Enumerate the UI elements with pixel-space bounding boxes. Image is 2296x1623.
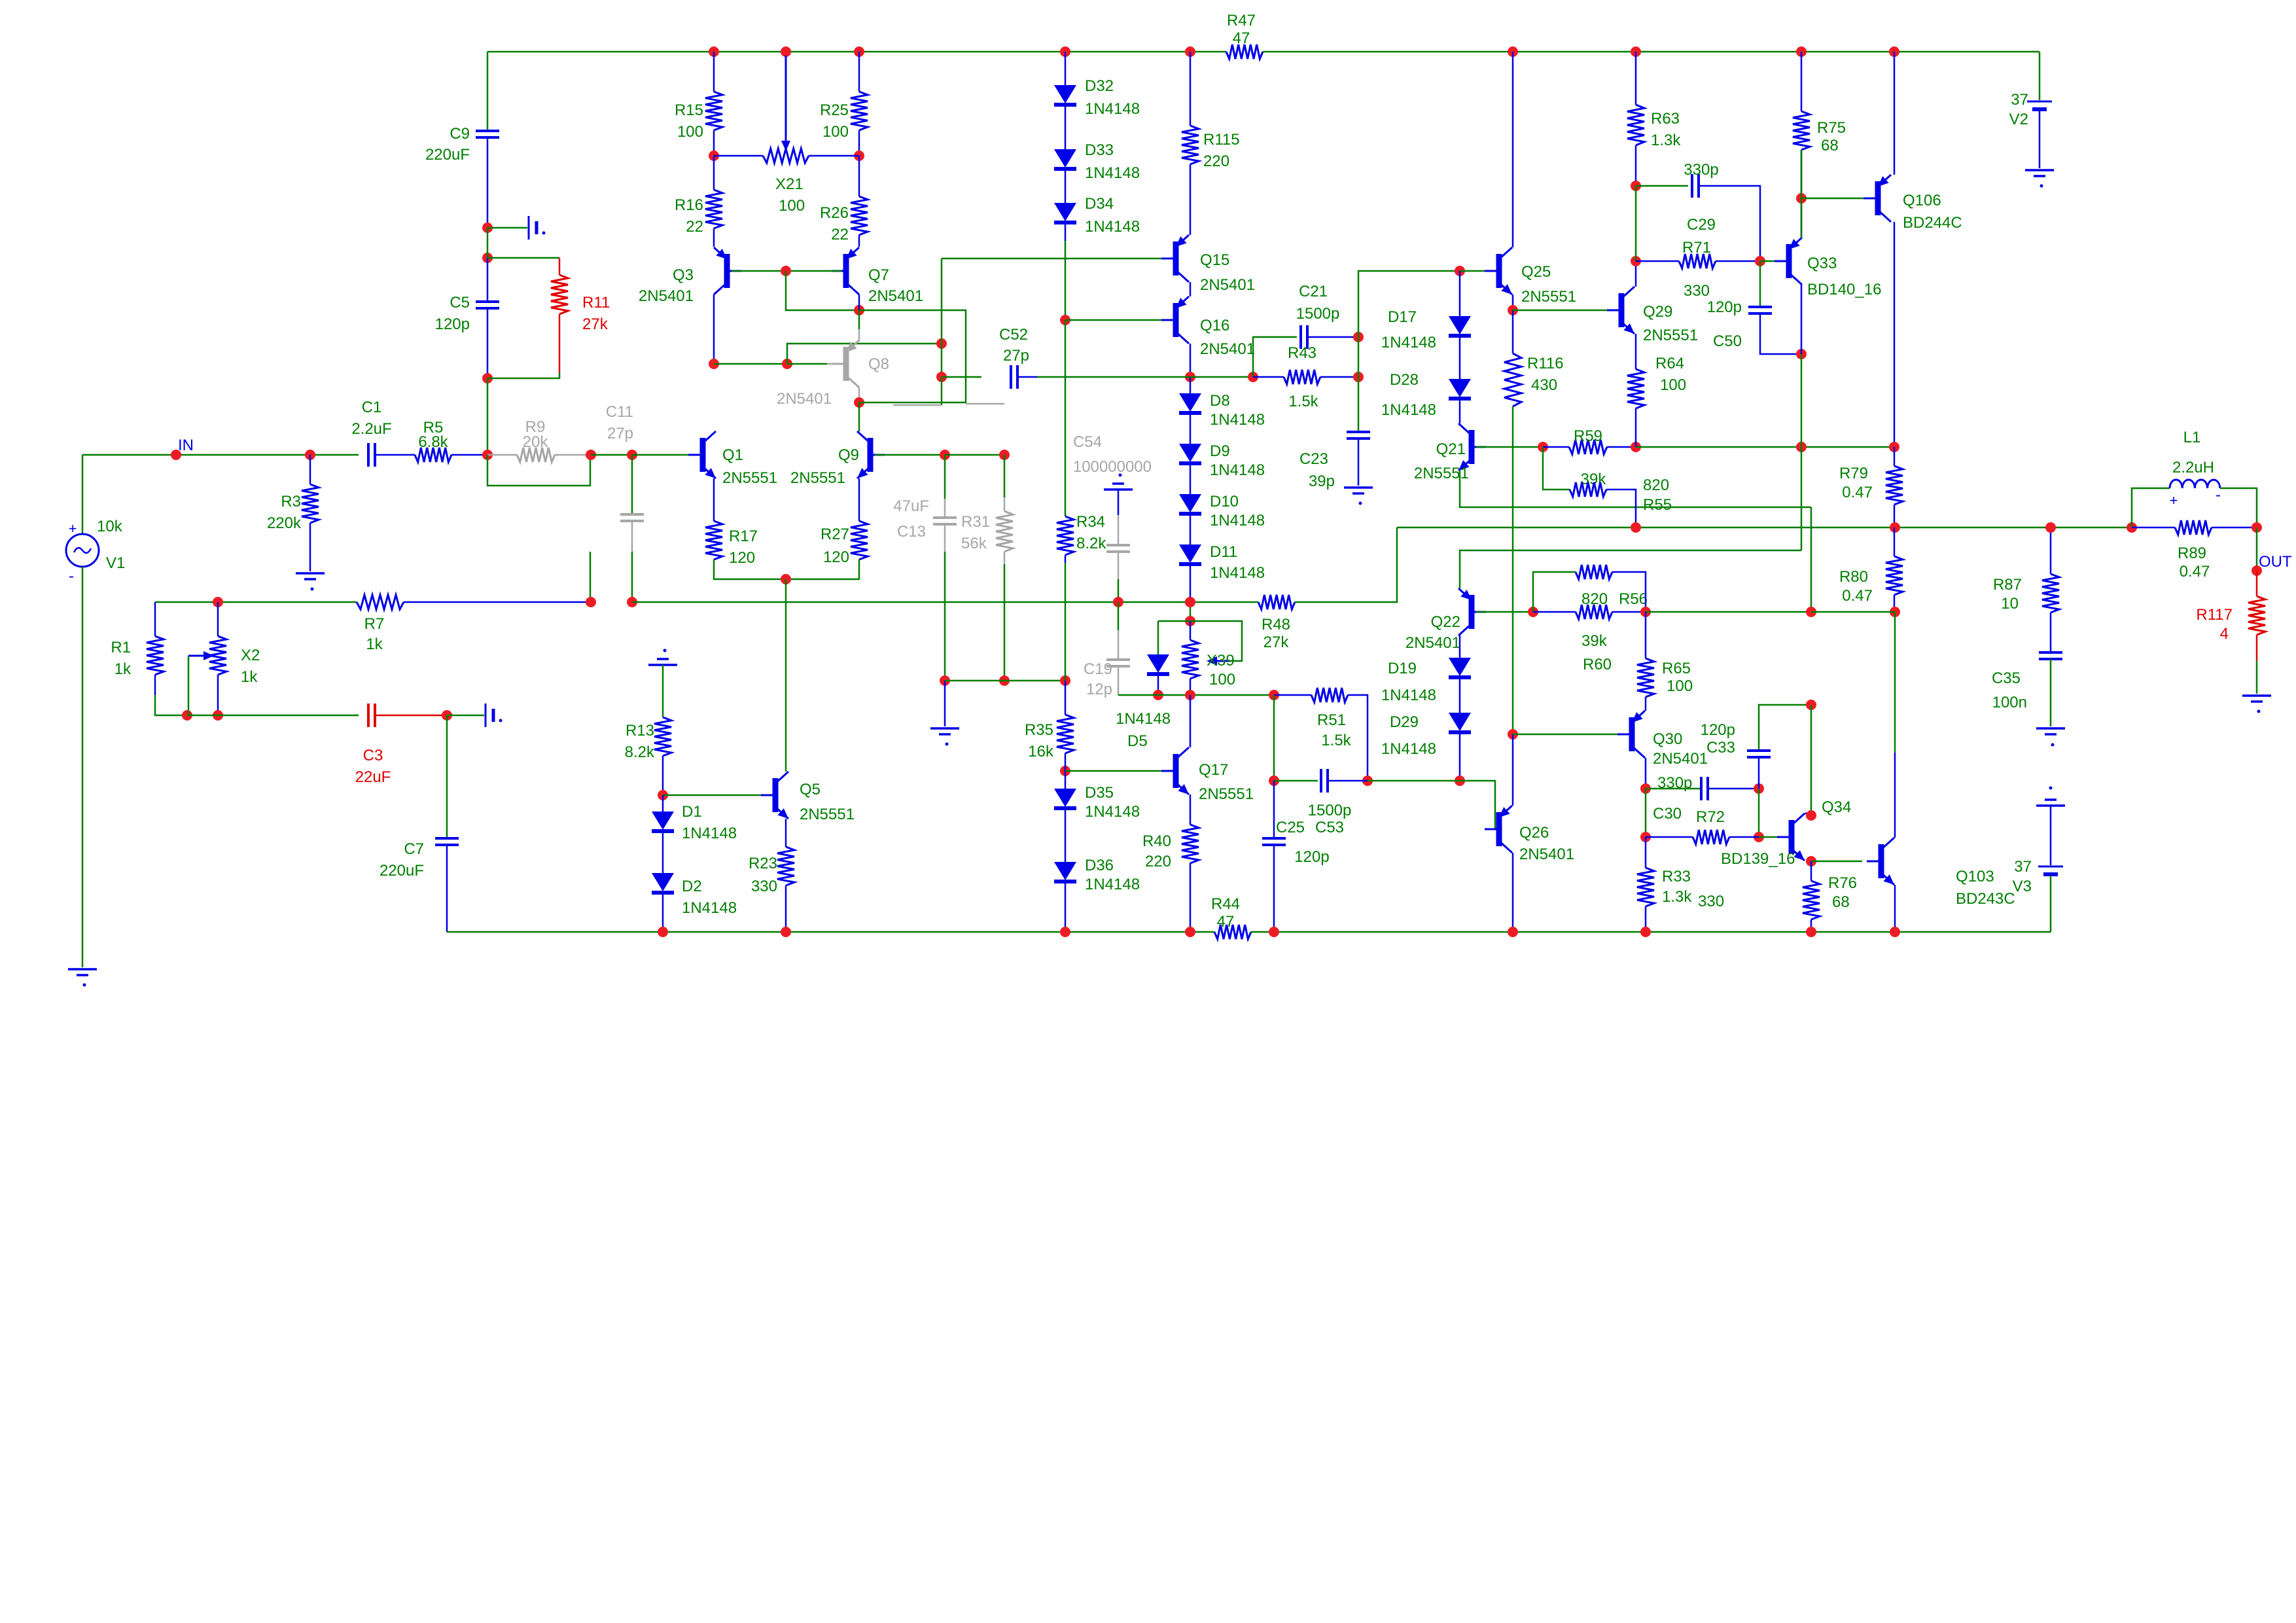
- svg-text:D17: D17: [1388, 308, 1417, 326]
- svg-text:10k: 10k: [97, 518, 123, 535]
- junction row B right: [1269, 690, 1279, 700]
- svg-text:D5: D5: [1127, 732, 1148, 750]
- junction R55/out rail: [1631, 522, 1641, 533]
- svg-text:27k: 27k: [1263, 633, 1290, 651]
- wire R1 bottom lead: [154, 675, 156, 695]
- wire bias row right: [1811, 611, 1895, 613]
- diode D8: [1179, 393, 1201, 413]
- transistor Q17: [1161, 747, 1189, 794]
- label C35 name: [1992, 669, 2021, 687]
- resistor R33: [1637, 868, 1654, 906]
- label Q9 value: [790, 469, 845, 487]
- svg-text:D33: D33: [1085, 141, 1114, 159]
- label D2 name: [682, 878, 702, 895]
- junction Q5 base node: [658, 790, 668, 800]
- svg-text:D28: D28: [1390, 371, 1419, 389]
- junction C33 top: [1806, 700, 1816, 710]
- wire row to Q26 base: [1460, 781, 1495, 829]
- junction R87 top: [2045, 522, 2056, 533]
- junction top rail 2: [854, 46, 864, 57]
- label R47 name: [1227, 12, 1256, 29]
- junction Q34 collector: [1806, 810, 1816, 821]
- label Q22 value: [1405, 634, 1460, 652]
- resistor R15: [705, 92, 722, 130]
- junction bottom rail 4: [1269, 927, 1279, 937]
- wire C13 bottom gray: [944, 524, 946, 552]
- label D1 value: [682, 825, 737, 842]
- label D19 value: [1381, 687, 1436, 704]
- label R80 value: [1842, 587, 1873, 605]
- wire C21 node to Q25 base: [1358, 271, 1460, 337]
- label R5 value: [418, 433, 448, 451]
- label Q15 name: [1200, 251, 1229, 269]
- label C13 name: [897, 523, 926, 541]
- ground R3: [296, 573, 325, 591]
- junction D11/mid rail: [1185, 597, 1195, 607]
- label C19 value: [1086, 681, 1112, 698]
- svg-text:C50: C50: [1713, 332, 1742, 350]
- junction R9 bypass right: [586, 450, 596, 460]
- wire bottom row to C3: [187, 715, 359, 717]
- diode D9: [1179, 444, 1201, 463]
- junction node C5 top: [482, 253, 493, 263]
- capacitor C53: [1262, 838, 1286, 845]
- capacitor C9: [476, 131, 499, 137]
- label C35 value: [1992, 694, 2027, 711]
- transistor Q5: [761, 772, 788, 819]
- label V1 value: [97, 518, 123, 535]
- wire R31 top green: [1004, 455, 1006, 497]
- svg-text:C5: C5: [450, 294, 470, 312]
- svg-text:R71: R71: [1682, 239, 1711, 257]
- wire R76 bottom lead: [1810, 919, 1812, 932]
- wire R26 bottom: [858, 235, 860, 247]
- svg-text:Q7: Q7: [868, 266, 889, 284]
- ground flag above R13: [648, 649, 677, 666]
- wire R72 right lead: [1729, 836, 1759, 838]
- resistor R40: [1182, 825, 1199, 863]
- wire C21 right lead: [1307, 336, 1358, 338]
- wire Q34 base row: [1759, 836, 1777, 838]
- svg-text:68: 68: [1821, 137, 1839, 154]
- wire C3 right lead: [375, 715, 447, 717]
- svg-text:Q8: Q8: [868, 355, 889, 373]
- wire R11 top branch: [487, 257, 559, 259]
- label Q16 value: [1200, 340, 1255, 358]
- svg-text:2N5401: 2N5401: [1519, 846, 1574, 863]
- svg-text:120p: 120p: [435, 315, 470, 333]
- wire Q15-Q16 link: [1190, 282, 1192, 296]
- ground V1: [68, 969, 97, 987]
- junction R71 left: [1631, 256, 1641, 266]
- svg-text:C9: C9: [450, 125, 470, 143]
- wire Q9 emitter: [858, 478, 860, 521]
- wire to R31 top: [945, 454, 1004, 456]
- svg-text:1N4148: 1N4148: [1381, 740, 1436, 758]
- label C25 value: [1308, 802, 1352, 819]
- label D10 name: [1210, 493, 1239, 510]
- wire C11 bottom lead: [631, 552, 633, 602]
- wire C54 column green: [1118, 579, 1120, 602]
- wire C35 bottom lead: [2050, 659, 2052, 726]
- label R9 value: [523, 433, 549, 451]
- label R9 name: [525, 418, 546, 436]
- label BD139 value: [1721, 850, 1795, 868]
- label Q5 name: [800, 781, 821, 798]
- svg-text:8.2k: 8.2k: [625, 743, 655, 761]
- wire V3 bottom lead: [2050, 876, 2052, 932]
- ground C23: [1344, 488, 1373, 505]
- svg-text:C52: C52: [999, 326, 1028, 344]
- svg-text:C30: C30: [1653, 805, 1682, 823]
- diode D11: [1179, 544, 1201, 564]
- wire C53 bottom lead: [1273, 845, 1275, 932]
- potentiometer X39 body: [1182, 640, 1199, 679]
- junction D8 top node: [1185, 372, 1195, 382]
- svg-text:2.2uF: 2.2uF: [351, 420, 391, 438]
- wire Q33 emitter up: [1801, 150, 1803, 238]
- label Q26 name: [1519, 824, 1549, 842]
- wire C52 to D8 node: [1037, 376, 1190, 378]
- ground flag V3 top: [2036, 787, 2065, 806]
- resistor R79: [1886, 466, 1903, 505]
- wire Q30 base row: [1513, 734, 1617, 736]
- label C23 name: [1299, 450, 1328, 468]
- label D33 value: [1085, 164, 1140, 182]
- svg-text:1.3k: 1.3k: [1651, 132, 1681, 149]
- potentiometer X21 body: [763, 149, 809, 163]
- svg-text:Q30: Q30: [1653, 730, 1682, 748]
- label R26 value: [831, 226, 849, 243]
- svg-text:Q29: Q29: [1643, 303, 1672, 321]
- label R3 name: [281, 493, 301, 510]
- svg-text:100: 100: [822, 123, 849, 141]
- transistor Q8 (disabled): [832, 340, 859, 387]
- label X39 value: [1209, 671, 1235, 688]
- label Q3 name: [673, 266, 694, 284]
- wire stub x902: [590, 552, 592, 602]
- label R64 name: [1655, 355, 1684, 372]
- wire V1 minus lead: [82, 567, 84, 967]
- svg-text:220k: 220k: [267, 514, 302, 532]
- label C52 value: [1003, 347, 1029, 365]
- wire D9-D10 link: [1190, 465, 1192, 494]
- wire D5 top lead: [1157, 621, 1159, 654]
- svg-text:1N4148: 1N4148: [682, 899, 737, 917]
- wire R7 row right: [404, 601, 590, 603]
- svg-text:1N4148: 1N4148: [1210, 564, 1265, 582]
- capacitor C21: [1301, 325, 1307, 349]
- svg-text:22: 22: [686, 218, 703, 236]
- svg-text:100000000: 100000000: [1073, 458, 1152, 476]
- svg-text:27p: 27p: [1003, 347, 1029, 365]
- svg-text:R25: R25: [820, 101, 849, 119]
- label D11 value: [1210, 564, 1265, 582]
- label R64 value: [1660, 376, 1686, 394]
- wire D1 top lead: [662, 795, 664, 811]
- resistor R11: [551, 275, 568, 314]
- wire C13 top green: [944, 455, 946, 499]
- label Q5 value: [800, 806, 855, 823]
- svg-text:R47: R47: [1227, 12, 1256, 29]
- resistor R63: [1627, 105, 1644, 145]
- svg-text:D32: D32: [1085, 77, 1114, 95]
- wire V2 top lead: [2039, 52, 2041, 100]
- label R87 name: [1993, 576, 2022, 594]
- svg-text:12p: 12p: [1086, 681, 1112, 698]
- wire Q22 collector path: [1460, 550, 1801, 588]
- junction Q29 base node: [1508, 305, 1518, 315]
- junction bottom rail 2: [1060, 927, 1070, 937]
- label R44 name: [1211, 895, 1240, 913]
- wire R7 row to mid rail: [632, 601, 1226, 603]
- svg-text:120: 120: [823, 548, 849, 566]
- label C5 name: [450, 294, 470, 312]
- label Q103 name: [1956, 868, 1994, 885]
- wire Q8 base lead gray: [827, 363, 841, 365]
- wire bottom rail left: [447, 931, 1214, 933]
- svg-text:8.2k: 8.2k: [1076, 535, 1106, 552]
- wire C30 left lead: [1646, 788, 1701, 790]
- transistor Q15: [1161, 235, 1189, 282]
- svg-text:820: 820: [1643, 476, 1669, 494]
- junction C3/C7 node: [442, 710, 452, 721]
- wire R80 bottom lead: [1894, 595, 1896, 612]
- svg-text:Q16: Q16: [1200, 317, 1229, 334]
- svg-text:0.47: 0.47: [1842, 484, 1873, 501]
- wire R117 gnd lead: [2256, 661, 2258, 694]
- resistor R17: [705, 521, 722, 560]
- label X2 name: [241, 647, 260, 664]
- svg-text:R23: R23: [749, 855, 777, 872]
- label D36 value: [1085, 876, 1140, 893]
- label C11 name: [606, 403, 633, 421]
- potentiometer X39 wiper arrow: [1207, 656, 1230, 666]
- svg-text:47: 47: [1217, 913, 1235, 931]
- label C50 name: [1713, 332, 1742, 350]
- label C33 name: [1706, 739, 1735, 757]
- label D5 value: [1116, 710, 1171, 728]
- svg-text:2N5401: 2N5401: [1200, 340, 1255, 358]
- svg-text:D35: D35: [1085, 784, 1114, 802]
- svg-text:100: 100: [1660, 376, 1686, 394]
- label D34 name: [1085, 195, 1114, 213]
- capacitor C1: [368, 443, 375, 467]
- junction R51 right: [1362, 776, 1373, 786]
- capacitor C7: [435, 838, 459, 845]
- junction D5 bottom: [1153, 690, 1163, 700]
- wire Q8 base row: [714, 363, 787, 365]
- diode D10: [1179, 494, 1201, 514]
- svg-text:X21: X21: [775, 175, 804, 193]
- svg-text:16k: 16k: [1028, 743, 1054, 760]
- wire R34 bottom lead: [1065, 555, 1067, 563]
- label R11 name: [582, 294, 610, 312]
- wire Q3-Q7 base link: [732, 270, 841, 272]
- label Q106 value: [1903, 214, 1962, 232]
- svg-text:C13: C13: [897, 523, 926, 541]
- wire Q106 emitter: [1894, 52, 1896, 175]
- svg-text:D29: D29: [1390, 713, 1419, 731]
- wire R11 top lead: [559, 258, 561, 275]
- svg-text:100: 100: [779, 197, 805, 215]
- label R7 value: [366, 635, 383, 653]
- junction bias row x2768: [1806, 607, 1816, 617]
- wire R55 branch: [1543, 447, 1570, 490]
- junction top rail 7: [1796, 46, 1807, 57]
- svg-text:D8: D8: [1210, 392, 1230, 410]
- junction Q3/Q1 collector: [709, 359, 719, 369]
- junction top rail 0: [709, 46, 719, 57]
- label R59 name: [1574, 427, 1602, 445]
- inductor L1: [2170, 480, 2221, 508]
- transistor Q29: [1607, 287, 1634, 334]
- label R13 value: [625, 743, 655, 761]
- resistor R27: [851, 521, 868, 560]
- label Q29 value: [1643, 327, 1698, 344]
- label R89 value: [2180, 563, 2210, 580]
- junction R72 left: [1640, 832, 1651, 842]
- wire C9-C5 link: [487, 228, 489, 258]
- label D17 name: [1388, 308, 1417, 326]
- junction top rail 5: [1508, 46, 1518, 57]
- label R87 value: [2001, 595, 2019, 613]
- wire R116 column down: [1512, 406, 1514, 734]
- label R48 value: [1263, 633, 1290, 651]
- wire R117 top lead: [2256, 571, 2258, 596]
- svg-text:2N5551: 2N5551: [1521, 288, 1576, 306]
- label Q22 name: [1431, 613, 1460, 631]
- junction driver row mid: [1796, 442, 1807, 452]
- wire R5 to node: [451, 454, 487, 456]
- label Q29 name: [1643, 303, 1672, 321]
- ground flag above C54: [1104, 474, 1133, 490]
- label R33 name: [1662, 868, 1691, 885]
- transistor Q3: [714, 247, 741, 294]
- capacitor C5: [476, 302, 499, 308]
- wire Q103 collector col: [1894, 753, 1896, 836]
- svg-text:120: 120: [729, 549, 755, 567]
- svg-text:Q34: Q34: [1822, 798, 1851, 816]
- wire Q17 collector: [1190, 695, 1192, 747]
- wire Q22 emitter: [1459, 635, 1461, 658]
- wire Q17 base row: [1065, 770, 1171, 772]
- wire R33 top lead: [1645, 837, 1647, 868]
- label R116 value: [1531, 376, 1557, 394]
- wire R59 left lead: [1543, 446, 1569, 448]
- junction C50/Q33 collector: [1796, 349, 1807, 359]
- svg-text:C7: C7: [404, 840, 424, 858]
- junction C52 left: [936, 372, 947, 382]
- resistor R51: [1311, 688, 1348, 702]
- wire R75 top: [1801, 52, 1803, 111]
- junction D29 bottom: [1455, 776, 1465, 786]
- wire R3 top lead: [309, 455, 311, 484]
- transistor Q22: [1458, 588, 1486, 635]
- potentiometer X2 wiper arrow: [188, 651, 214, 660]
- svg-text:D19: D19: [1388, 660, 1417, 677]
- resistor R5: [415, 448, 451, 462]
- svg-text:22uF: 22uF: [355, 768, 391, 786]
- wire C52 right lead: [1017, 376, 1037, 378]
- label Q1 value: [722, 469, 777, 487]
- svg-text:R60: R60: [1583, 656, 1612, 673]
- wire R79 top lead: [1894, 447, 1896, 466]
- label R72 value: [1698, 893, 1724, 910]
- wire R63 top: [1635, 52, 1637, 105]
- wire C29 left lead: [1636, 185, 1688, 187]
- svg-text:2N5551: 2N5551: [1643, 327, 1698, 344]
- wire C52 left lead: [942, 376, 981, 378]
- resistor R59: [1569, 440, 1607, 454]
- svg-text:R55: R55: [1643, 496, 1672, 514]
- wire C11 top lead: [631, 455, 633, 514]
- label R47 value: [1233, 29, 1250, 47]
- svg-text:Q9: Q9: [838, 446, 859, 464]
- resistor R75: [1793, 111, 1810, 150]
- label D8 name: [1210, 392, 1230, 410]
- svg-text:C54: C54: [1073, 433, 1102, 451]
- wire R87-C35 link: [2050, 613, 2052, 652]
- label R43 value: [1288, 393, 1318, 410]
- svg-text:Q26: Q26: [1519, 824, 1549, 842]
- wire C1-R5: [375, 454, 415, 456]
- wire R60 leads: [1533, 611, 1576, 613]
- svg-text:R87: R87: [1993, 576, 2022, 594]
- label Q8 name: [868, 355, 889, 373]
- label D28 name: [1390, 371, 1419, 389]
- junction C30 right: [1754, 783, 1764, 794]
- label D8 value: [1210, 411, 1265, 429]
- wire X21 left lead: [714, 155, 763, 157]
- svg-text:R35: R35: [1025, 721, 1053, 739]
- junction C53 top: [1269, 776, 1279, 786]
- label D35 name: [1085, 784, 1114, 802]
- svg-text:2N5401: 2N5401: [777, 390, 832, 408]
- wire R117 bottom lead: [2256, 635, 2258, 661]
- svg-text:1N4148: 1N4148: [1210, 512, 1265, 529]
- label Q33 value: [1807, 281, 1881, 298]
- svg-text:D34: D34: [1085, 195, 1114, 213]
- label C25 name: [1276, 819, 1305, 836]
- label Q30 value: [1653, 750, 1708, 768]
- wire OUT rail: [1397, 527, 2132, 529]
- wire D17-D28 link: [1459, 337, 1461, 379]
- wire R65 top lead: [1645, 612, 1647, 658]
- resistor R116: [1504, 353, 1521, 406]
- junction Q17 base node: [1060, 766, 1070, 776]
- svg-text:Q15: Q15: [1200, 251, 1229, 269]
- junction Q9 base/C13: [940, 450, 950, 460]
- svg-text:OUT: OUT: [2259, 553, 2292, 571]
- wire OUT stub: [2256, 527, 2258, 571]
- label R117 name: [2196, 606, 2233, 624]
- label V3 value: [2014, 858, 2032, 876]
- transistor Q7: [832, 247, 859, 294]
- label C29 name: [1687, 216, 1716, 234]
- svg-text:1k: 1k: [366, 635, 383, 653]
- diode D33: [1054, 149, 1076, 169]
- wire D11 to X39: [1190, 602, 1192, 621]
- label C19 name: [1084, 660, 1112, 678]
- transistor Q33: [1775, 238, 1802, 285]
- label C33 value1: [1701, 721, 1735, 739]
- svg-text:2N5551: 2N5551: [722, 469, 777, 487]
- potentiometer X2 body: [209, 636, 226, 675]
- svg-text:0.47: 0.47: [2180, 563, 2210, 580]
- junction R59 right: [1631, 442, 1641, 452]
- label Q17 name: [1199, 761, 1228, 779]
